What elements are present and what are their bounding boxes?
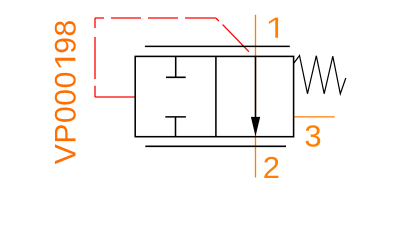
svg-text:3: 3 (304, 119, 321, 154)
svg-text:98: 98 (49, 19, 82, 54)
svg-text:VP000: VP000 (49, 71, 82, 164)
svg-text:2: 2 (263, 150, 280, 185)
